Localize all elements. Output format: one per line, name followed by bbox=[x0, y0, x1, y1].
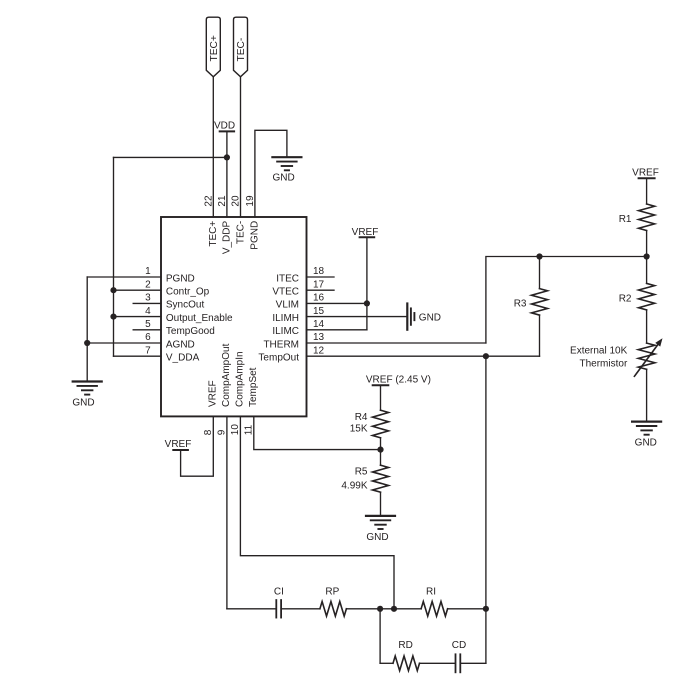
svg-text:Output_Enable: Output_Enable bbox=[166, 313, 233, 324]
svg-text:TEC+: TEC+ bbox=[209, 35, 220, 61]
svg-text:11: 11 bbox=[243, 424, 254, 435]
svg-text:R2: R2 bbox=[619, 293, 632, 304]
svg-text:GND: GND bbox=[366, 532, 388, 543]
svg-text:15K: 15K bbox=[350, 424, 368, 435]
svg-text:TEC-: TEC- bbox=[236, 38, 247, 62]
svg-text:3: 3 bbox=[145, 293, 151, 304]
svg-text:18: 18 bbox=[313, 266, 325, 277]
svg-text:12: 12 bbox=[313, 345, 325, 356]
svg-text:TEC+: TEC+ bbox=[208, 221, 219, 247]
svg-text:2: 2 bbox=[145, 279, 151, 290]
svg-text:TEC-: TEC- bbox=[235, 221, 246, 244]
svg-text:CompAmpIn: CompAmpIn bbox=[235, 351, 246, 407]
svg-text:5: 5 bbox=[145, 319, 151, 330]
svg-text:22: 22 bbox=[203, 195, 214, 207]
svg-text:ILIMC: ILIMC bbox=[272, 326, 299, 337]
svg-text:RP: RP bbox=[325, 586, 339, 597]
svg-text:CI: CI bbox=[274, 586, 284, 597]
svg-text:VREF: VREF bbox=[208, 380, 219, 407]
svg-text:13: 13 bbox=[313, 332, 325, 343]
svg-text:VREF (2.45 V): VREF (2.45 V) bbox=[366, 374, 431, 385]
svg-text:V_DDP: V_DDP bbox=[222, 220, 233, 254]
svg-text:VREF: VREF bbox=[352, 227, 379, 238]
svg-text:7: 7 bbox=[145, 345, 151, 356]
svg-text:PGND: PGND bbox=[250, 221, 261, 250]
svg-text:ITEC: ITEC bbox=[276, 273, 299, 284]
svg-text:21: 21 bbox=[217, 195, 228, 207]
svg-text:GND: GND bbox=[272, 173, 294, 184]
svg-text:17: 17 bbox=[313, 279, 325, 290]
svg-text:AGND: AGND bbox=[166, 339, 195, 350]
svg-text:Thermistor: Thermistor bbox=[580, 359, 628, 370]
svg-text:VTEC: VTEC bbox=[272, 287, 299, 298]
svg-text:External 10K: External 10K bbox=[570, 345, 628, 356]
svg-text:R5: R5 bbox=[355, 467, 368, 478]
svg-text:4: 4 bbox=[145, 306, 151, 317]
svg-text:4.99K: 4.99K bbox=[341, 481, 367, 492]
svg-text:VREF: VREF bbox=[165, 439, 192, 450]
svg-text:19: 19 bbox=[245, 195, 256, 207]
svg-text:15: 15 bbox=[313, 306, 325, 317]
svg-text:1: 1 bbox=[145, 266, 151, 277]
svg-text:9: 9 bbox=[217, 429, 228, 435]
svg-text:R3: R3 bbox=[514, 298, 527, 309]
svg-text:Contr_Op: Contr_Op bbox=[166, 287, 210, 298]
svg-text:VDD: VDD bbox=[214, 120, 235, 131]
svg-text:R1: R1 bbox=[619, 214, 632, 225]
svg-text:GND: GND bbox=[72, 398, 94, 409]
svg-text:RI: RI bbox=[426, 586, 436, 597]
svg-text:CompAmpOut: CompAmpOut bbox=[221, 343, 232, 407]
svg-text:16: 16 bbox=[313, 293, 325, 304]
svg-text:THERM: THERM bbox=[263, 339, 299, 350]
svg-text:CD: CD bbox=[452, 640, 466, 651]
svg-text:GND: GND bbox=[419, 313, 441, 324]
svg-text:VREF: VREF bbox=[632, 167, 659, 178]
svg-text:SyncOut: SyncOut bbox=[166, 300, 205, 311]
svg-text:14: 14 bbox=[313, 319, 325, 330]
svg-text:20: 20 bbox=[231, 195, 242, 207]
svg-text:VLIM: VLIM bbox=[276, 300, 299, 311]
svg-text:V_DDA: V_DDA bbox=[166, 353, 200, 364]
svg-text:10: 10 bbox=[230, 424, 241, 436]
svg-text:GND: GND bbox=[635, 438, 657, 449]
svg-text:TempOut: TempOut bbox=[258, 353, 299, 364]
svg-text:TempSet: TempSet bbox=[248, 367, 259, 407]
svg-text:8: 8 bbox=[203, 429, 214, 435]
svg-text:RD: RD bbox=[398, 640, 412, 651]
svg-text:R4: R4 bbox=[355, 412, 368, 423]
svg-text:ILIMH: ILIMH bbox=[272, 313, 299, 324]
svg-text:TempGood: TempGood bbox=[166, 326, 215, 337]
svg-text:6: 6 bbox=[145, 332, 151, 343]
svg-text:PGND: PGND bbox=[166, 273, 195, 284]
